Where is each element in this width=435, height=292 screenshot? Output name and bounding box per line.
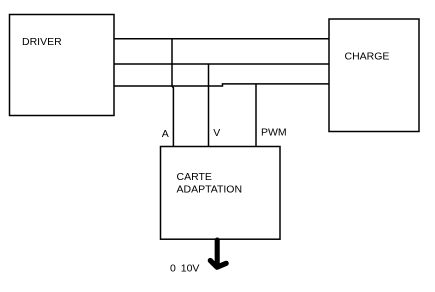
- svg-text:V: V: [213, 127, 220, 139]
- block DRIVER: [10, 15, 115, 116]
- svg-text:CARTE: CARTE: [177, 171, 212, 183]
- svg-text:PWM: PWM: [261, 127, 287, 139]
- svg-text:DRIVER: DRIVER: [22, 36, 62, 48]
- wire V: tap from wire 2 down to CARTE ADAPTATION: [208, 64, 210, 147]
- wire 2: DRIVER to CHARGE (middle): [114, 63, 329, 65]
- svg-text:0 10V: 0 10V: [170, 262, 199, 274]
- block CARTE ADAPTATION: [161, 147, 281, 240]
- svg-text:A: A: [162, 128, 169, 140]
- arrow: thick output arrow below CARTE ADAPTATION: [210, 240, 226, 267]
- wire PWM: tap from wire 3 down to CARTE ADAPTATION: [255, 84, 257, 147]
- wire 3: DRIVER to CHARGE (bottom, with small step): [114, 84, 329, 86]
- svg-text:CHARGE: CHARGE: [345, 51, 390, 63]
- wire 1: DRIVER to CHARGE (top): [114, 38, 329, 40]
- block CHARGE: [329, 19, 419, 132]
- wire A: tap from wire 1 down to CARTE ADAPTATION: [172, 39, 173, 147]
- svg-text:ADAPTATION: ADAPTATION: [177, 184, 243, 196]
